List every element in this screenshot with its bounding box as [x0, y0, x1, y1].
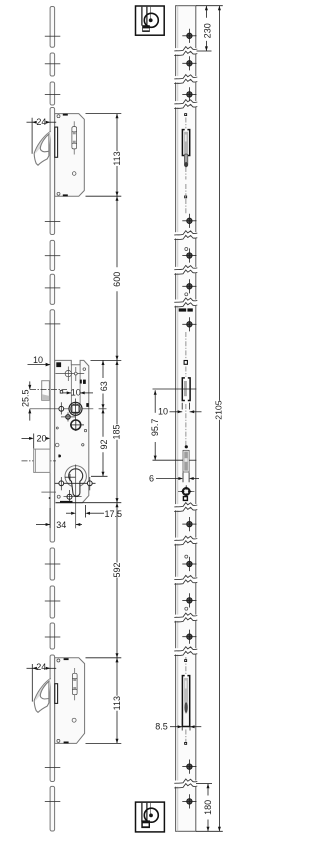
svg-text:600: 600: [112, 272, 122, 287]
svg-text:24: 24: [36, 117, 46, 127]
chain arrowheads: [116, 114, 119, 119]
faceplate edge strip segment 12: [50, 786, 55, 831]
center dash-dot segments: [185, 118, 187, 742]
plate break 9: [174, 575, 198, 584]
main case body: [55, 360, 89, 502]
deadbolt slot: [183, 450, 189, 472]
svg-text:113: 113: [112, 696, 122, 710]
icon box top: [136, 6, 165, 35]
extension line main case top: [91, 359, 122, 361]
cylinder flank hole right: [87, 477, 92, 490]
plate break 2: [174, 75, 198, 84]
dimension 24 extension line bottom: [31, 664, 33, 702]
bottom case lower hole: [72, 718, 76, 722]
deadbolt centerline dash-dot: [22, 460, 57, 462]
dimension 10 slot width: [158, 403, 202, 417]
dimension 17.5: [66, 505, 122, 519]
hook slot in faceplate edge: [55, 127, 58, 157]
bottom case black tab lower: [64, 742, 69, 744]
svg-text:113: 113: [112, 151, 122, 165]
plate break 12: [174, 779, 198, 788]
svg-text:2105: 2105: [214, 400, 224, 419]
black bar pair: [179, 308, 187, 311]
icon rosette circle: [144, 13, 158, 27]
strip break tick: [45, 93, 61, 95]
icon center dot: [149, 814, 153, 818]
latch black block: [56, 362, 61, 367]
faceplate edge strip segment 4 through top lock case: [50, 108, 55, 235]
dimension 113 top: extension lines: [86, 113, 122, 115]
icon faceplate lines: [141, 7, 143, 26]
top hook bolt: [34, 131, 51, 165]
dimension 2105: [218, 6, 220, 401]
svg-text:24: 24: [36, 662, 46, 672]
dimension 230: [205, 6, 207, 18]
chain dimension line: [116, 114, 118, 151]
plate break 6: [174, 298, 198, 307]
top case body: [55, 114, 85, 197]
auxiliary hub hole: [59, 402, 64, 414]
strip break tick: [45, 563, 61, 565]
bottom case screw hole lower: [57, 739, 60, 742]
upper fixing hole with cross: [55, 367, 84, 382]
icon cylinder rect: [141, 820, 150, 828]
faceplate edge strip segment 3: [50, 82, 55, 105]
top case screw hole lower: [57, 192, 60, 195]
icon faceplate lines: [141, 803, 143, 822]
lower reference line: [41, 491, 56, 493]
euro cylinder boss: [65, 466, 86, 487]
faceplate edge strip segment 11 through bottom lock case: [50, 655, 55, 782]
svg-text:25.5: 25.5: [21, 389, 31, 407]
filled dot above deadbolt slot: [185, 445, 188, 448]
svg-text:34: 34: [56, 520, 66, 530]
small black squares: [184, 113, 187, 745]
icon box bottom: [136, 802, 165, 832]
strip break tick: [45, 636, 61, 638]
plate break 10: [174, 613, 198, 622]
dimension 24 bottom: [27, 662, 57, 672]
svg-text:17.5: 17.5: [105, 509, 123, 519]
svg-text:592: 592: [112, 562, 122, 577]
svg-text:8.5: 8.5: [155, 722, 168, 732]
screw holes with cross: [182, 29, 196, 809]
svg-text:230: 230: [203, 23, 213, 38]
dimension 20: [22, 434, 51, 449]
latch bolt: [42, 381, 50, 401]
dimension 25.5: [21, 381, 32, 420]
svg-text:92: 92: [99, 439, 109, 449]
top case lower hole: [72, 172, 76, 176]
hook slot in faceplate edge: [55, 684, 58, 704]
top case black tab upper: [63, 114, 68, 116]
bottom hook bolt: [34, 678, 51, 712]
dimension 63/92 line: [91, 360, 109, 476]
cylinder hole front view: [178, 485, 194, 497]
small case holes: [56, 427, 58, 429]
nub square on right edge: [86, 403, 89, 407]
dimension 8.5 slot width: [155, 719, 201, 732]
top case screw hole upper: [57, 115, 60, 118]
strip break tick: [45, 255, 61, 257]
svg-text:10: 10: [33, 355, 43, 365]
svg-text:185: 185: [112, 424, 122, 439]
case corner hole: [83, 368, 86, 371]
dimension 24 extension line: [31, 118, 33, 154]
faceplate edge strip segment 6: [50, 274, 55, 304]
top case black tab lower: [63, 194, 68, 196]
strip break tick: [45, 287, 61, 289]
follower hub: [69, 399, 82, 420]
bottom case black tab upper: [64, 658, 69, 660]
latch centerline dash-dot: [30, 389, 67, 391]
icon cylinder rect: [142, 25, 150, 32]
dimension 10 mid: [60, 388, 93, 398]
strip break tick: [45, 800, 61, 802]
dimension 113 bottom extension lines: [86, 657, 122, 659]
keeper slot (square hole): [182, 377, 190, 402]
faceplate inner lip line: [177, 6, 179, 832]
bottom case adjustment slot: [72, 673, 77, 694]
flank holes centerline: [55, 482, 96, 484]
strip break tick: [45, 35, 61, 37]
hook slot 2 (hook thrown): [182, 674, 189, 726]
black D mark: [58, 455, 61, 458]
stamp marks: [80, 380, 82, 384]
svg-text:20: 20: [36, 434, 46, 444]
top extension line: [196, 5, 223, 7]
small circles on plate: [185, 248, 188, 251]
icon center dot: [149, 18, 153, 22]
small drill below follower: [61, 412, 75, 421]
strip break tick: [45, 323, 61, 325]
faceplate edge strip segment 10: [50, 623, 55, 649]
plate break 4: [174, 231, 198, 240]
plate break 3: [174, 100, 198, 109]
faceplate edge strip segment 1: [50, 7, 55, 48]
svg-text:10: 10: [71, 388, 81, 398]
svg-text:95.7: 95.7: [150, 419, 160, 437]
plate break 8: [174, 536, 198, 545]
svg-text:180: 180: [203, 800, 213, 815]
plate break 7: [174, 503, 198, 512]
bottom case body: [55, 658, 85, 744]
plate break 5: [174, 265, 198, 274]
top case slot centerline: [73, 121, 75, 126]
svg-text:10: 10: [158, 407, 168, 417]
latch arrow dimension 10: [28, 364, 51, 366]
dimension 95.7: [153, 388, 197, 390]
strip break tick: [45, 63, 61, 65]
plate break 1: [174, 47, 198, 56]
strip break tick: [45, 600, 61, 602]
dimension 6 slot width: [149, 473, 199, 484]
open square: [184, 361, 187, 365]
bottom extension line: [196, 830, 223, 832]
notch edge extension lines: [70, 365, 72, 405]
faceplate edge strip segment 2: [50, 53, 55, 76]
gear wheel hole: [70, 419, 84, 431]
svg-text:6: 6: [149, 473, 154, 483]
small open square below cylinder: [183, 497, 187, 501]
dimension 24 top: [27, 117, 57, 127]
cylinder centerline cross: [65, 476, 75, 478]
faceplate edge strip segment 8: [50, 548, 55, 580]
dimension 34: [36, 508, 82, 530]
bottom case slot centerline: [74, 668, 76, 673]
strip break tick: [45, 767, 61, 769]
euro profile cutout: [69, 469, 83, 496]
plate break 11: [174, 647, 198, 656]
strip break tick: [45, 220, 61, 222]
cylinder flank hole left: [59, 477, 64, 490]
dimension 180: [196, 783, 212, 785]
faceplate edge strip segment 5: [50, 240, 55, 270]
faceplate body: [176, 6, 196, 832]
top case adjustment slot: [72, 127, 77, 149]
bottom edge black mark: [60, 501, 73, 503]
bottom small hole: [57, 495, 60, 498]
bottom case screw hole upper: [57, 659, 60, 662]
faceplate edge strip segment 9: [50, 586, 55, 618]
icon rosette circle: [144, 808, 158, 822]
faceplate edge strip segment 7 through main lock case: [50, 310, 55, 542]
extension line main case bottom: [56, 502, 121, 504]
deadbolt: [34, 449, 50, 472]
svg-text:63: 63: [99, 381, 109, 391]
follower centerline: [30, 408, 94, 410]
hook slot 1: [182, 128, 189, 167]
bottom drill with cross: [64, 490, 82, 503]
